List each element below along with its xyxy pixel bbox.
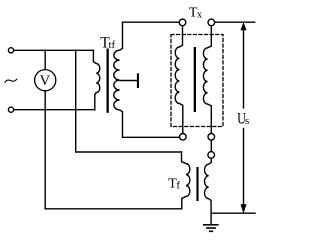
svg-text:f: f (176, 179, 180, 191)
svg-text:x: x (197, 9, 202, 20)
svg-text:tf: tf (109, 39, 116, 51)
svg-text:s: s (245, 115, 249, 127)
svg-text:V: V (40, 73, 51, 89)
